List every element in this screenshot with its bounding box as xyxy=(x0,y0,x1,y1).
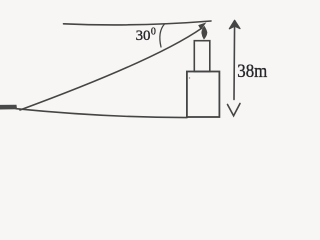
candle flame xyxy=(201,26,207,40)
svg-text:38m: 38m xyxy=(237,61,267,82)
arrowhead up xyxy=(229,20,240,29)
speck noise dot xyxy=(189,77,190,78)
candle stand base xyxy=(187,72,220,118)
wire slant line of sight xyxy=(20,28,202,110)
vertical arrow shaft 38m xyxy=(233,22,236,100)
wire horizontal sight line xyxy=(64,21,212,25)
arrowhead at vertex of sight line xyxy=(198,22,206,30)
wire ground line xyxy=(16,109,187,118)
observer block xyxy=(0,105,17,110)
arrowhead down xyxy=(228,104,241,116)
angle arc 30 degrees xyxy=(160,24,165,47)
svg-text:30: 30 xyxy=(136,28,151,44)
candle body xyxy=(194,41,210,72)
svg-text:0: 0 xyxy=(151,27,156,38)
